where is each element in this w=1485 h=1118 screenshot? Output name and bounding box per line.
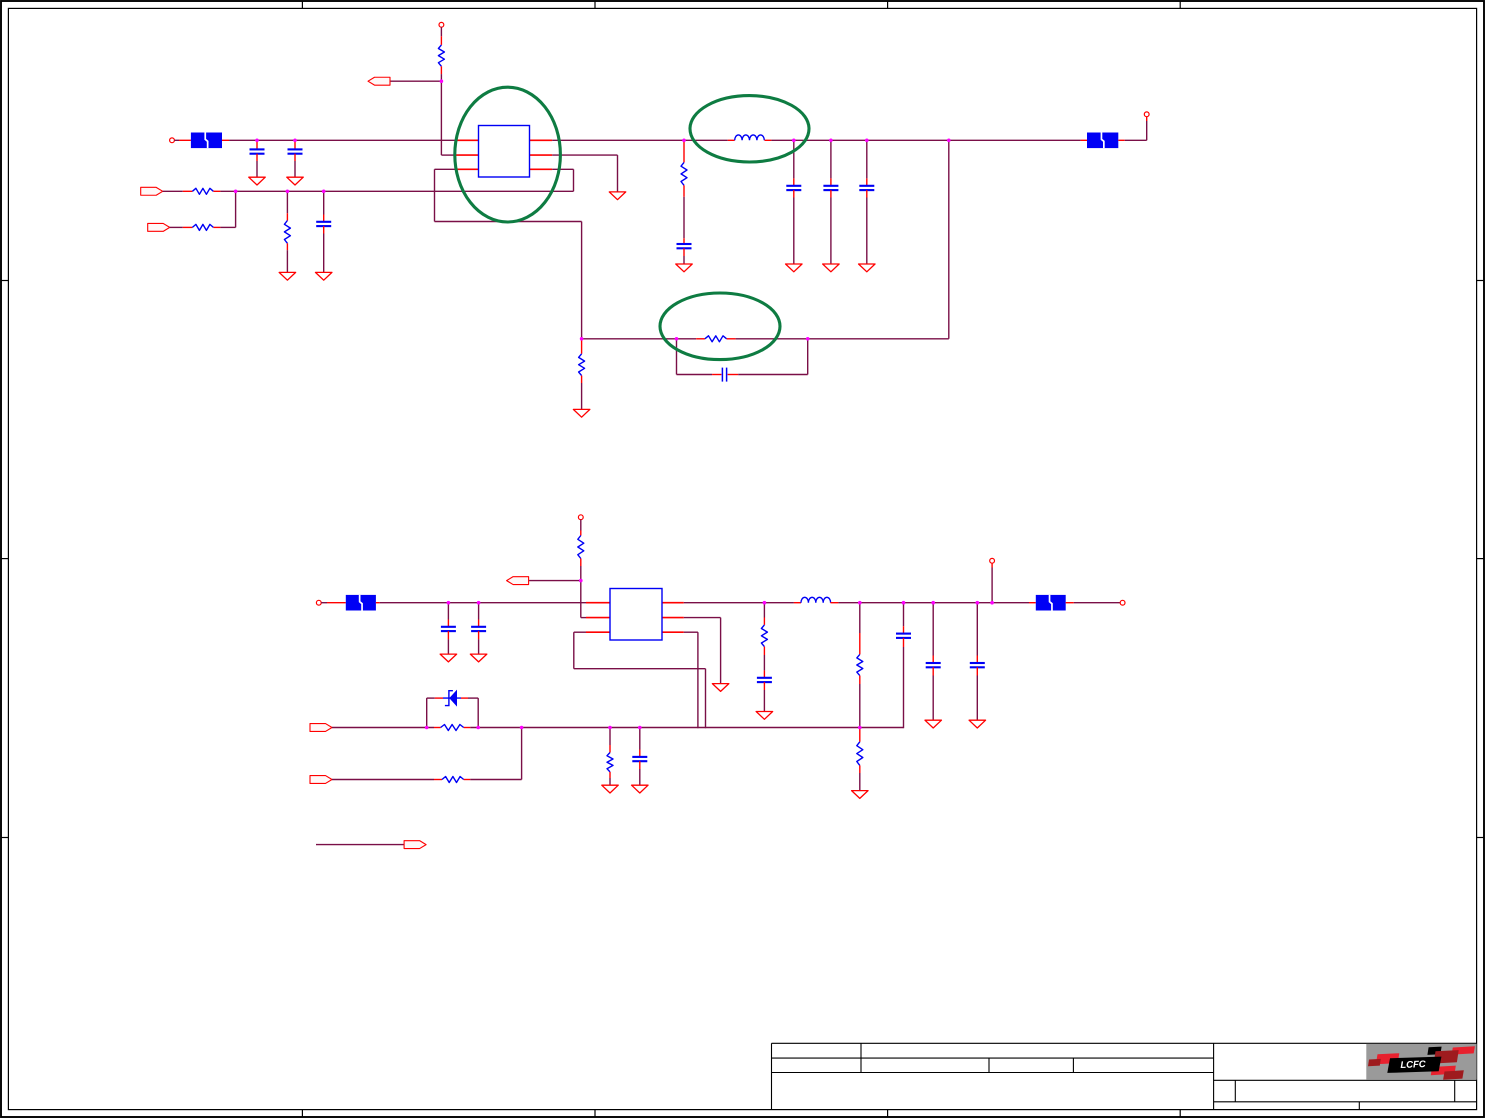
svg-text:LCFC: LCFC bbox=[1400, 1059, 1426, 1071]
